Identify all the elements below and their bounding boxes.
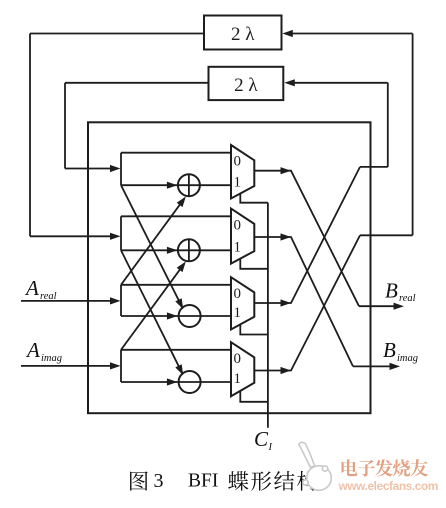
delay box 2λ (real feedback) with label — [209, 67, 284, 100]
svg-text:0: 0 — [234, 286, 242, 302]
adder U1 (plus) circle — [178, 174, 200, 196]
mux M1 output to B_real — [254, 171, 359, 307]
diagonal lane4 to adder2 with arrow — [121, 263, 185, 350]
diagonal lane3 to adder1 with arrow — [121, 198, 185, 284]
svg-text:1: 1 — [234, 174, 242, 190]
svg-text:imag: imag — [41, 353, 62, 364]
subtractor U3 (minus) circle — [179, 305, 201, 327]
lane3 bottom rail through adder to mux — [121, 315, 231, 317]
svg-text:1: 1 — [234, 305, 242, 321]
mux M4 trapezoid — [231, 342, 254, 396]
mux M2 select stub — [240, 259, 268, 269]
svg-text:I: I — [268, 442, 273, 453]
lane2 top rail to mux — [121, 215, 231, 217]
lane2 fork vertical — [120, 216, 122, 250]
lane1 top rail to mux — [121, 152, 231, 154]
adder U2 (plus) circle — [178, 239, 200, 261]
mux M2 output to B_imag — [254, 237, 353, 366]
watermark pen doodle — [299, 442, 332, 490]
mux M1 trapezoid — [231, 145, 254, 199]
svg-text:0: 0 — [234, 217, 242, 233]
mux M4 output up to box1 feedback — [254, 235, 360, 370]
lane3 fork vertical — [120, 285, 122, 316]
mux M4 select stub — [240, 391, 268, 402]
svg-text:www.elecfans.com: www.elecfans.com — [338, 479, 439, 493]
svg-text:B: B — [383, 338, 396, 362]
select bus C_I vertical — [267, 203, 269, 428]
watermark logo text 电子发烧友 — [341, 459, 357, 476]
mux M3 trapezoid — [231, 277, 254, 329]
svg-text:real: real — [399, 293, 416, 304]
outer block frame — [88, 122, 371, 413]
wire: right vertical from mux4 elbow — [412, 34, 414, 236]
wire: into lane1 fork with arrow — [65, 168, 110, 170]
wire: into box1 with left arrow — [292, 33, 413, 35]
svg-text:2 λ: 2 λ — [234, 75, 258, 96]
mux M1 select stub — [240, 194, 268, 203]
diagonal lane2 to subtractor4 with arrow — [121, 250, 182, 372]
svg-text:0: 0 — [234, 351, 242, 367]
svg-text:3: 3 — [154, 470, 164, 492]
lane4 top rail to mux — [121, 349, 231, 351]
mux M3 output up to box2 feedback — [254, 167, 360, 303]
svg-text:2 λ: 2 λ — [231, 24, 255, 45]
wire: elbow horizontal mux3 to box2 — [360, 166, 388, 168]
svg-text:B: B — [385, 279, 398, 303]
wire: box2 output left — [65, 82, 209, 84]
wire: into box2 with left arrow — [294, 82, 388, 84]
wire B_imag with arrow — [353, 365, 390, 367]
wire: A_imag input with arrow — [21, 365, 110, 367]
svg-text:C: C — [254, 427, 269, 451]
lane2 bottom rail through adder to mux — [121, 249, 231, 251]
mux M3 select stub — [240, 324, 268, 334]
lane1 bottom rail through adder to mux — [121, 184, 231, 186]
wire: left vertical to lane2 — [29, 34, 31, 237]
svg-text:0: 0 — [234, 154, 242, 170]
svg-text:A: A — [24, 276, 39, 300]
wire: right vertical from mux3 elbow — [387, 83, 389, 167]
delay box 2λ (imag feedback) with label — [204, 16, 282, 50]
svg-text:BFI: BFI — [188, 471, 218, 492]
wire: A_real input with arrow — [21, 300, 110, 302]
wire: left vertical to lane1 — [64, 83, 66, 169]
wire B_real with arrow — [359, 305, 394, 307]
lane3 top rail to mux — [121, 284, 231, 286]
lane1 fork vertical — [120, 153, 122, 186]
svg-text:1: 1 — [234, 371, 242, 387]
wire: box1 output left — [30, 33, 204, 35]
diagonal lane1 to subtractor3 with arrow — [121, 185, 182, 307]
subtractor U4 (minus) circle — [179, 371, 201, 393]
svg-text:1: 1 — [234, 240, 242, 256]
svg-text:A: A — [25, 338, 40, 362]
wire: into lane2 fork with arrow — [30, 235, 110, 237]
mux M2 trapezoid — [231, 209, 254, 264]
lane4 bottom rail through adder to mux — [121, 381, 231, 383]
caption 图3 BFI 蝶形结构 — [130, 471, 148, 490]
wire: elbow horizontal mux4 to box1 — [360, 234, 413, 236]
svg-text:imag: imag — [397, 353, 418, 364]
svg-text:real: real — [40, 291, 57, 302]
lane4 fork vertical — [120, 350, 122, 382]
